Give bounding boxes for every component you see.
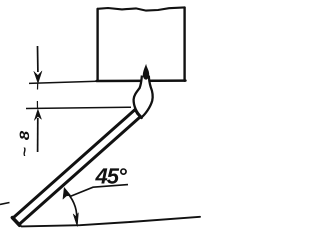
flame outline bbox=[134, 76, 153, 118]
flame-stick junction bbox=[137, 113, 141, 117]
label ~8 (rotated) bbox=[20, 131, 30, 156]
angle arc 45 deg bbox=[65, 191, 77, 218]
arc arrowhead upper (touches match lower edge) bbox=[63, 187, 71, 199]
short line at left edge bbox=[0, 203, 10, 205]
dimension arrow upper (pointing down) bbox=[34, 46, 42, 90]
box (object above match) bbox=[97, 7, 186, 81]
dimension arrow lower (pointing up) bbox=[34, 101, 41, 152]
label 45deg bbox=[95, 168, 127, 184]
arc arrowhead lower (touches baseline) bbox=[73, 213, 78, 227]
baseline (ground line) bbox=[22, 217, 201, 227]
extension line upper (at box bottom level) bbox=[29, 81, 97, 83]
leader line to 45 label bbox=[70, 185, 128, 197]
match stick bbox=[13, 110, 141, 225]
match butt cap bbox=[12, 218, 19, 226]
flame tip (dark) bbox=[143, 65, 149, 79]
extension line lower (at flame tip level) bbox=[26, 107, 131, 108]
